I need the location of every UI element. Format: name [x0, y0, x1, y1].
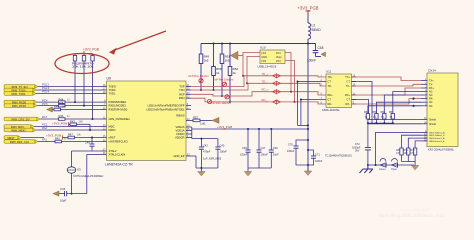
node earth junction: [367, 164, 369, 166]
wire LED yellow cathode: [402, 135, 422, 148]
svg-text:RXD1/MODE1: RXD1/MODE1: [109, 104, 127, 108]
svg-text:CT: CT: [347, 98, 351, 102]
net label RD_- with diff marker: [262, 98, 281, 104]
transformer U11 body: [322, 70, 352, 112]
net flag RMII_TX_EN: [4, 85, 38, 89]
wire C46/C47/C30 gnd rail: [248, 167, 271, 169]
pullup resistor R62 (in ellipse): [73, 54, 76, 103]
U11 pin names: [328, 75, 334, 106]
wire LED green cathode: [415, 141, 421, 148]
wire U10 left loop 2 (red): [247, 57, 260, 84]
svg-text:CT: CT: [328, 80, 332, 84]
svg-text:R45: R45: [59, 101, 64, 105]
node CT bus junction: [307, 124, 309, 126]
net flag RMII_TXD0: [4, 88, 36, 92]
power port +3V3_PGB (VDD rail): [217, 125, 232, 129]
svg-text:R42: R42: [55, 137, 60, 141]
wire RMII_RXD0 row + resistor R44: [37, 97, 102, 103]
node RXD1 pullup junction: [83, 105, 85, 107]
svg-text:TX-: TX-: [429, 83, 433, 86]
svg-text:100nF: 100nF: [307, 59, 316, 63]
ground triangle (C42): [198, 168, 205, 176]
svg-text:Shield: Shield: [429, 123, 437, 126]
node C42 junction: [200, 138, 202, 140]
svg-text:2kV: 2kV: [355, 150, 360, 153]
node termination rail junctions: [367, 122, 369, 124]
wire VDD bus vertical: [191, 127, 193, 139]
svg-text:XTAL1/CLKIN: XTAL1/CLKIN: [109, 153, 126, 157]
wire 3V3A horizontal rail: [201, 43, 316, 45]
svg-text:LED1Green1_K: LED1Green1_K: [429, 140, 445, 143]
capacitor C47 100nF: [257, 129, 269, 168]
svg-text:1k5: 1k5: [204, 59, 209, 63]
DnP marker circle on col C: [222, 82, 226, 86]
annotation arrow: [109, 31, 166, 55]
svg-text:PA2: PA2: [42, 126, 48, 130]
wire RMII_MDC row: [34, 126, 102, 128]
svg-text:C70: C70: [288, 142, 293, 146]
svg-text:12k1: 12k1: [200, 122, 206, 126]
svg-text:TXP: TXP: [179, 85, 184, 89]
wire RXER row + resistor R48 10k: [53, 105, 102, 111]
svg-text:PC5: PC5: [42, 102, 48, 106]
wire RMII_CRS_DV row + resistor R46: [40, 114, 102, 120]
ground earth symbol: [360, 165, 373, 173]
wire LED green anode: [408, 138, 421, 148]
wire GND_EP down: [195, 156, 197, 168]
resistor R53 12k1 (RBIAS): [191, 116, 212, 126]
svg-text:U10: U10: [260, 46, 266, 50]
svg-text:C43: C43: [60, 187, 66, 191]
svg-text:RX-: RX-: [429, 98, 433, 101]
net flag RMII_CRS_DV: [4, 117, 40, 121]
wire vertical 3V3A feed to magnetics CT: [307, 44, 309, 172]
svg-text:R54: R54: [364, 111, 369, 114]
svg-text:LAN8742A-CZ-TR: LAN8742A-CZ-TR: [105, 162, 133, 166]
wire NC pin5 to termination: [384, 95, 421, 114]
wire U10 right loop 2 (red): [285, 61, 295, 102]
U10 pin names: [262, 52, 283, 63]
net label TD_- with diff marker: [262, 79, 281, 85]
node gnd rail junction: [200, 167, 202, 169]
svg-text:GND: GND: [262, 56, 268, 59]
capacitor C70 100nF (3V3A): [287, 140, 308, 165]
svg-text:DnP Res 10kohm: DnP Res 10kohm: [189, 74, 209, 78]
wire U10 left loop (red): [243, 53, 260, 76]
svg-text:LED1Green1_A: LED1Green1_A: [429, 137, 445, 140]
ground triangle (LED): [411, 166, 418, 170]
svg-text:R46: R46: [59, 114, 64, 118]
svg-text:R48: R48: [54, 105, 59, 109]
diode LD4 Open: [391, 159, 398, 171]
net flag RMII_REF_CLK: [4, 140, 38, 144]
svg-text:VDD2A: VDD2A: [176, 125, 185, 129]
wire RMII_TX_EN row: [38, 86, 102, 88]
wire bead to rail: [307, 39, 309, 44]
U9 right pin stubs: [186, 87, 196, 157]
ground triangle (3V3A caps): [304, 165, 311, 175]
svg-text:TXD1: TXD1: [109, 92, 116, 96]
svg-text:RXER/PHYAD0: RXER/PHYAD0: [109, 108, 128, 112]
capacitor C46 100nF: [240, 129, 251, 168]
ground port arrow (C43): [53, 191, 59, 196]
wire NC pin4 to termination: [393, 92, 421, 114]
svg-text:+3V3_PGB: +3V3_PGB: [83, 48, 99, 52]
svg-text:PA7: PA7: [42, 115, 48, 119]
net flag RMII_MDIO: [4, 128, 36, 132]
svg-text:Open: Open: [391, 168, 398, 171]
annotation ellipse: [55, 54, 109, 74]
resistor R50 1k (pullup col B): [212, 44, 222, 91]
resistor R57 75: [389, 111, 395, 123]
svg-text:C46: C46: [242, 146, 247, 150]
wire RMII_RXD1 row + resistor R45: [37, 101, 102, 107]
node pullup to TXN row: [200, 89, 202, 91]
node pullup rail junctions: [213, 43, 215, 45]
node CRS_DV pullup junction: [92, 118, 94, 120]
svg-text:CN14: CN14: [428, 69, 436, 73]
svg-text:RXN: RXN: [179, 96, 185, 100]
svg-text:nRST: nRST: [109, 136, 116, 140]
node NC junction: [412, 105, 414, 107]
ESD protection U10 USBLC6 body: [258, 46, 286, 69]
svg-text:NC: NC: [429, 101, 433, 104]
svg-text:PA1: PA1: [42, 138, 48, 142]
svg-text:RX+: RX+: [345, 93, 351, 97]
wire U10 right loop (red): [285, 53, 291, 92]
node rail junction: [307, 42, 309, 44]
crystal X3: [67, 167, 104, 178]
pullup resistor R70 (in ellipse): [91, 54, 94, 120]
svg-text:RMII_CRS_DV: RMII_CRS_DV: [11, 117, 29, 121]
svg-text:R57: R57: [389, 111, 394, 114]
op-amp U9 LAN8742A PHY body: [105, 77, 186, 167]
svg-text:R55: R55: [373, 111, 378, 114]
svg-text:R47: R47: [68, 133, 73, 137]
ground port arrow (RXER row): [47, 107, 53, 112]
svg-text:RX-: RX-: [346, 102, 351, 106]
svg-text:C71: C71: [315, 152, 320, 156]
capacitor C40 100nF: [215, 139, 227, 168]
svg-text:LED1Yellow1_A: LED1Yellow1_A: [429, 131, 445, 134]
capacitor C48 100nF (top right of rail): [307, 44, 324, 63]
node pullup to RXN row: [229, 101, 231, 103]
svg-text:I/O4: I/O4: [276, 52, 281, 55]
node MDIO pullup junction: [89, 129, 91, 131]
svg-text:1k5: 1k5: [225, 59, 230, 63]
svg-text:C40: C40: [220, 143, 225, 147]
svg-text:RMII_TXD1: RMII_TXD1: [11, 92, 26, 96]
wire shield node down to cap: [367, 123, 369, 147]
U9 left pin numbers: [103, 84, 106, 155]
svg-text:TD-: TD-: [328, 84, 332, 88]
svg-text:C30: C30: [273, 146, 278, 150]
wire VDD lower rail: [192, 138, 218, 140]
svg-text:C47: C47: [261, 146, 266, 150]
svg-text:Vbus: Vbus: [276, 56, 282, 59]
svg-text:https://blog.csdn.net/weixin_4: https://blog.csdn.net/weixin_433: [378, 213, 444, 218]
DnP marker circle on RXN row: [207, 99, 211, 103]
U9 left pin names: [109, 85, 131, 157]
svg-text:weixin blog csdn: weixin blog csdn: [400, 207, 429, 212]
svg-text:RXP: RXP: [179, 92, 185, 96]
wire RX- to RJ45 (red): [352, 99, 422, 104]
inductor L2 BEAD: [308, 23, 321, 39]
svg-text:1k5: 1k5: [79, 120, 84, 124]
svg-text:TC1264KKA7N2080101: TC1264KKA7N2080101: [325, 155, 352, 158]
CN14 pin stubs: [421, 81, 428, 141]
net flag RMII_MDC: [4, 125, 34, 129]
svg-text:TX+: TX+: [429, 80, 434, 83]
net flag RMII_RXD0: [4, 100, 37, 104]
svg-text:100: 100: [404, 152, 409, 155]
wire +3V3 to bead: [307, 13, 309, 23]
svg-text:U11: U11: [326, 70, 332, 74]
svg-text:BEAD: BEAD: [312, 28, 322, 32]
wire CT2 to 3V3A: [301, 100, 326, 126]
ground triangle (C46): [244, 168, 251, 176]
wire RMII_REF_CLK row + resistor R42: [36, 137, 102, 143]
U9 right pin names (LED straps): [147, 104, 186, 112]
svg-text:100nF: 100nF: [315, 159, 323, 163]
svg-text:NRST: NRST: [7, 136, 15, 140]
svg-text:R56: R56: [381, 111, 386, 114]
net flag RMII_RXD1: [4, 104, 37, 108]
resistor R54 75: [364, 111, 370, 123]
resistor R58 270: [396, 148, 403, 162]
net flag RMII_TXD1: [4, 92, 36, 96]
svg-text:RD_-: RD_-: [262, 98, 269, 102]
svg-text:10nF: 10nF: [273, 153, 279, 157]
DnP marker circle on col D: [225, 95, 229, 99]
svg-text:100nF: 100nF: [287, 149, 295, 153]
node CT junctions: [297, 81, 299, 83]
diode LD3 Green: [379, 159, 386, 171]
capacitor C43 10pF: [59, 187, 67, 203]
wire crystal to cap node: [71, 173, 73, 193]
U9 right pin numbers: [187, 84, 190, 157]
svg-text:PG14: PG14: [42, 90, 50, 94]
wire TX- to RJ45 (red): [352, 84, 422, 86]
wire TXP diff pair (red): [191, 76, 326, 87]
U11 pin numbers: [321, 75, 356, 105]
wire LED bottom rail: [368, 164, 414, 166]
ground port arrow (RBIAS): [212, 117, 219, 123]
svg-text:1k: 1k: [216, 71, 220, 75]
svg-text:10k: 10k: [62, 105, 67, 109]
svg-text:VDD1A: VDD1A: [176, 129, 185, 133]
connector CN14 body: [427, 69, 458, 152]
wire TXN diff pair (red): [191, 83, 326, 90]
svg-text:I/O3: I/O3: [276, 60, 281, 63]
ground port arrow (right of C48): [321, 52, 326, 57]
node crystal/cap junction: [71, 193, 73, 195]
U9 right pin names: [173, 85, 184, 158]
svg-text:R44: R44: [59, 97, 64, 101]
CN14 pin names: [429, 80, 437, 126]
svg-text:I/O2: I/O2: [262, 60, 267, 63]
net label TD_+ with diff marker: [262, 72, 281, 78]
node pullup to RXP row: [221, 95, 223, 97]
svg-text:NC: NC: [429, 94, 433, 97]
power port +3V3_PGB (nRST pullup) + resistor R47: [46, 133, 102, 140]
svg-text:TD+: TD+: [328, 75, 333, 79]
svg-text:VDDCR: VDDCR: [175, 136, 185, 140]
svg-text:1k: 1k: [233, 71, 237, 75]
svg-text:100nF: 100nF: [240, 153, 248, 157]
svg-text:TD_-: TD_-: [262, 79, 268, 83]
svg-text:CT: CT: [347, 80, 351, 84]
svg-text:10pF: 10pF: [60, 199, 67, 203]
wire shield pin14: [368, 123, 421, 125]
wire U10 gnd stub: [238, 55, 243, 57]
svg-text:KRJ-C064LA7N295NL: KRJ-C064LA7N295NL: [428, 147, 455, 151]
svg-text:Shield: Shield: [429, 119, 437, 122]
svg-text:10k 10k 10k: 10k 10k 10k: [72, 64, 94, 68]
svg-text:KMS-1102NL: KMS-1102NL: [322, 108, 340, 112]
svg-text:VDDIO: VDDIO: [176, 132, 185, 136]
svg-text:U9: U9: [107, 77, 111, 81]
svg-text:TD_+: TD_+: [262, 72, 269, 76]
svg-text:CRS_DV/MODE2: CRS_DV/MODE2: [109, 117, 131, 121]
svg-text:RD+: RD+: [328, 93, 334, 97]
svg-text:100nF: 100nF: [261, 153, 269, 157]
svg-text:XTAL2: XTAL2: [109, 149, 118, 153]
wire TX+ to RJ45 (red): [352, 77, 422, 81]
wire RXP diff pair (red): [191, 92, 326, 96]
svg-text:MDIO: MDIO: [109, 128, 116, 132]
svg-text:TX-: TX-: [346, 84, 350, 88]
svg-text:GND_EP: GND_EP: [173, 154, 184, 158]
pullup value labels: [72, 61, 94, 68]
U9 left pin stubs: [102, 87, 107, 155]
wire RMII_TXD0 row: [36, 89, 102, 91]
power port +3V3_PGB (MDIO pullup) + resistor R43: [52, 120, 90, 131]
svg-text:RBIAS: RBIAS: [176, 114, 184, 118]
svg-text:NC: NC: [429, 105, 433, 108]
svg-text:270: 270: [396, 152, 401, 155]
capacitor C42 470nF: [199, 139, 211, 168]
node TD junctions: [242, 75, 244, 77]
svg-text:TX+: TX+: [345, 75, 350, 79]
svg-text:R43: R43: [70, 120, 75, 124]
capacitor C30 10nF: [269, 129, 279, 168]
node RX- junction: [412, 98, 414, 100]
node LED rail junctions: [375, 164, 377, 166]
wire VDD rail to 3V3: [192, 128, 308, 130]
wire XTAL1 row: [67, 155, 102, 194]
CN14 LED pin names: [429, 131, 445, 143]
resistor R49 1k5 (pullup col A): [199, 44, 209, 91]
DnP marker circle on col A: [199, 79, 203, 83]
resistor R51 1k5 (pullup col C): [220, 44, 230, 97]
wire CT1 to 3V3A: [298, 82, 327, 126]
svg-text:USBLC6-4SC6: USBLC6-4SC6: [258, 65, 277, 69]
wire NRST flag stub: [20, 137, 44, 139]
wire RXN diff pair (red): [191, 98, 326, 104]
wire CT right 1 down: [352, 82, 373, 124]
net flag NRST: [4, 136, 21, 140]
CN14 pin numbers: [424, 78, 427, 141]
resistor R52 1k (pullup col D): [228, 44, 238, 102]
svg-text:X3: X3: [77, 168, 81, 172]
wire C42/C40 gnd rail: [196, 167, 218, 169]
wire RMII_TXD1 row: [36, 93, 102, 95]
node nRST junction: [91, 137, 93, 139]
svg-text:RD_+: RD_+: [262, 88, 270, 92]
svg-text:LED1/nINTa/nPME/REGOFF: LED1/nINTa/nPME/REGOFF: [148, 104, 185, 108]
wire XTAL2 row: [72, 151, 102, 167]
wire RMII_MDIO row: [36, 129, 102, 131]
svg-text:RXD0/MODE0: RXD0/MODE0: [109, 100, 127, 104]
capacitor C71 100nF (3V3A): [308, 150, 323, 165]
ground port arrow (U10): [231, 51, 239, 59]
resistor R56 75: [381, 111, 387, 123]
wire CT bus to vertical: [298, 124, 309, 126]
svg-text:C48: C48: [318, 46, 324, 50]
svg-text:DnP Res 10kohm: DnP Res 10kohm: [213, 78, 233, 82]
svg-text:XO75-C2HHA-25.000MHz: XO75-C2HHA-25.000MHz: [73, 174, 104, 178]
resistor R59 100: [404, 148, 411, 162]
svg-text:TXEN: TXEN: [109, 85, 116, 89]
svg-text:nINT/REFCLKO: nINT/REFCLKO: [109, 140, 128, 144]
svg-text:RD-: RD-: [328, 102, 333, 106]
pullup resistor R64 (in ellipse): [82, 54, 85, 106]
svg-text:TXN: TXN: [179, 88, 184, 92]
resistor R60 270: [411, 148, 417, 162]
node VDD rail junctions: [247, 128, 249, 130]
wire RX+ to RJ45 (red): [352, 88, 422, 95]
node 3V3A cap junctions: [307, 139, 309, 141]
svg-text:C42: C42: [203, 143, 208, 147]
wire CT right 2 down: [352, 100, 369, 114]
power port +3V3_PGB (pullup trio): [75, 48, 99, 54]
svg-text:LED2/nINTa/nPME/nINTSEL: LED2/nINTa/nPME/nINTSEL: [147, 107, 186, 111]
svg-text:270: 270: [411, 152, 416, 155]
capacitor C49 (nRST): [85, 138, 95, 151]
svg-text:RMII_RXD1: RMII_RXD1: [12, 104, 27, 108]
resistor R55 75: [373, 111, 379, 123]
svg-text:RMII_REF_CLK: RMII_REF_CLK: [10, 140, 29, 144]
svg-text:1uF_X5R_0603: 1uF_X5R_0603: [203, 157, 222, 161]
wire NC pin7 to termination: [376, 102, 421, 113]
svg-text:RMII_MDIO: RMII_MDIO: [11, 128, 25, 132]
svg-text:CT: CT: [328, 98, 332, 102]
wire LED resistor bottoms: [402, 162, 416, 166]
svg-text:LED1Yellow1_K: LED1Yellow1_K: [429, 135, 445, 137]
wire termination rail: [368, 122, 393, 124]
svg-text:+3V3_PGB: +3V3_PGB: [297, 6, 318, 11]
svg-text:TXD0: TXD0: [109, 88, 116, 92]
svg-text:Green: Green: [379, 168, 386, 171]
svg-text:I/O1: I/O1: [262, 52, 267, 55]
svg-text:10k: 10k: [77, 133, 82, 137]
U11 right pin stubs: [352, 77, 357, 104]
wire NC pin8 to termination: [368, 106, 421, 114]
wire LED yellow anode: [376, 132, 421, 165]
svg-text:R53: R53: [193, 116, 198, 120]
capacitor C72 1000pF 2kV: [352, 143, 371, 165]
node RXD0 pullup junction: [74, 101, 76, 103]
net label RD_+ with diff marker: [262, 88, 281, 94]
power port +3V3_PGB (top): [297, 6, 318, 14]
svg-text:+3V3_PGB: +3V3_PGB: [52, 121, 67, 125]
svg-text:470pF: 470pF: [203, 150, 211, 154]
wire shield pin13: [368, 119, 421, 121]
svg-text:MDC: MDC: [109, 125, 115, 129]
svg-text:+3V3_PGB: +3V3_PGB: [217, 125, 232, 129]
svg-text:100nF: 100nF: [220, 150, 228, 154]
